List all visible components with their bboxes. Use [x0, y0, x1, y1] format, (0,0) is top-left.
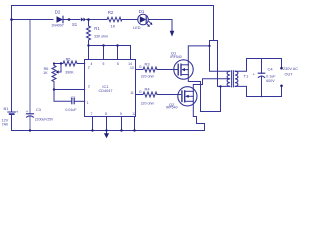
svg-text:R2: R2 [108, 10, 114, 15]
node bus pin4 [87, 44, 89, 46]
wire stub pin5 [103, 46, 105, 60]
capacitor C3 2200uF/25V column [29, 20, 31, 114]
svg-text:1K: 1K [111, 25, 116, 29]
svg-text:330 ohm: 330 ohm [94, 34, 108, 38]
resistor R1 330 ohm vertical [87, 20, 91, 46]
svg-text:7: 7 [91, 112, 93, 116]
svg-text:4: 4 [91, 62, 93, 66]
svg-text:220 ohm: 220 ohm [141, 102, 155, 106]
transformer T1 secondary winding [235, 71, 238, 86]
node Q1 drain junction [208, 45, 210, 47]
wire IC bottom stub pin7 [92, 117, 94, 131]
wire switch to R2 [87, 19, 108, 21]
wire bottom ground rail [12, 130, 205, 132]
node pot top [53, 62, 55, 64]
node battery rail junction [10, 18, 13, 21]
switch S1 chevrons [81, 18, 84, 22]
wire Q2 drain to primary center tap [193, 79, 230, 92]
svg-text:R5: R5 [66, 57, 71, 61]
svg-text:IRF540: IRF540 [166, 105, 178, 109]
wire Q2 source down [193, 101, 204, 123]
svg-text:6: 6 [117, 62, 119, 66]
svg-text:0.01uF: 0.01uF [65, 108, 77, 112]
wire riser to bottom rail [204, 124, 206, 131]
wire split left branch to primary top [210, 41, 230, 72]
node rail pin7 [91, 129, 93, 131]
ground arrow below rail [106, 131, 108, 134]
capacitor C4 plates [258, 72, 264, 74]
wire pin3 [54, 89, 85, 91]
svg-text:1N4007: 1N4007 [51, 24, 64, 28]
svg-text:3: 3 [88, 85, 90, 89]
wire battery column bottom [11, 115, 13, 131]
svg-text:+: + [253, 71, 256, 76]
svg-text:S1: S1 [72, 22, 78, 27]
wire R2 to LED [122, 19, 138, 21]
capacitor C4 0.1uF 600V column [261, 59, 263, 74]
wire split right branch to primary bottom [214, 41, 230, 87]
node rail C3 [29, 129, 31, 131]
svg-text:+: + [26, 109, 29, 114]
svg-text:D1: D1 [139, 9, 145, 14]
wire battery column top [11, 6, 13, 113]
svg-text:5: 5 [103, 62, 105, 66]
resistor R4 220 ohm [143, 92, 157, 97]
svg-text:230V AC: 230V AC [283, 67, 298, 71]
wire pin11 to R4 [136, 94, 144, 96]
svg-text:12: 12 [132, 112, 136, 116]
wire Q1 source down [188, 75, 220, 112]
battery B1 12V 7Ah [8, 111, 16, 113]
node output terminal bottom [280, 85, 283, 88]
node diode-switch [68, 18, 71, 21]
resistor R5 390K [63, 61, 77, 66]
svg-text:9: 9 [120, 112, 122, 116]
wire diode to switch [64, 19, 80, 21]
svg-text:R4: R4 [144, 86, 150, 91]
node rail pin12 [133, 129, 135, 131]
node output terminal top [280, 67, 283, 70]
svg-text:1K: 1K [43, 71, 48, 75]
wire secondary bottom to output [235, 86, 281, 96]
node primary bottom branch [219, 85, 221, 87]
LED D1 [138, 14, 153, 27]
wire R4 to Q2 gate [157, 94, 181, 96]
svg-text:+: + [16, 110, 19, 115]
svg-text:8: 8 [105, 112, 107, 116]
svg-text:11: 11 [130, 91, 134, 95]
wire IC bottom stub pin9 [121, 117, 123, 131]
svg-text:B1: B1 [4, 106, 10, 111]
svg-text:C2: C2 [71, 96, 76, 100]
wire IC bottom stub pin8 [106, 117, 108, 131]
wire IC bottom stub pin12 [134, 117, 136, 131]
node bus pin5 [102, 44, 104, 46]
wire C2 branch left [54, 90, 72, 102]
svg-text:7Ah: 7Ah [2, 122, 9, 126]
wire LED to down arrow [148, 20, 172, 32]
wire right drop from primary bottom [220, 86, 222, 111]
wire pot wiper [58, 64, 61, 73]
svg-text:IRF540: IRF540 [170, 55, 182, 59]
node pot bottom [53, 88, 55, 90]
svg-text:LED: LED [133, 26, 141, 30]
node rail pin9 [120, 129, 122, 131]
node R1 top [87, 18, 90, 21]
node wiper join [60, 62, 62, 64]
svg-text:2: 2 [88, 66, 90, 70]
svg-text:C3: C3 [36, 108, 41, 112]
svg-text:T1: T1 [244, 74, 249, 79]
wire R5 to pot top [54, 64, 63, 66]
wire R3 to Q1 gate [157, 69, 178, 71]
wire stub pin6 [117, 46, 119, 60]
transformer T1 primary winding [227, 71, 230, 86]
transistor Q1 IRF540 [174, 60, 193, 79]
svg-text:OUT: OUT [285, 73, 294, 77]
wire Q1 drain up [188, 46, 209, 65]
wire pin10 to R3 [136, 69, 144, 71]
svg-text:C4: C4 [268, 66, 274, 71]
node arrow ground indicator [170, 31, 175, 37]
node rail pin8 [105, 129, 107, 131]
wire C2 to pin1 [74, 100, 85, 102]
node bus pin6 [116, 44, 118, 46]
svg-text:220 ohm: 220 ohm [141, 75, 155, 79]
svg-text:2200uF/25V: 2200uF/25V [35, 117, 54, 121]
svg-text:1: 1 [87, 101, 89, 105]
svg-text:10: 10 [130, 66, 134, 70]
svg-text:R6: R6 [44, 67, 49, 71]
wire pin2 to R5 [77, 63, 85, 65]
svg-text:R3: R3 [144, 61, 150, 66]
svg-text:D2: D2 [55, 10, 61, 15]
svg-text:0.1uF: 0.1uF [266, 75, 276, 79]
svg-text:R1: R1 [94, 26, 100, 31]
wire top +12V rail [12, 6, 214, 41]
svg-text:CD4047: CD4047 [99, 89, 113, 93]
resistor R6 potentiometer [52, 66, 56, 90]
diode D2 1N4007 [57, 16, 64, 22]
capacitor C3 plates [27, 113, 34, 115]
svg-text:600V: 600V [266, 79, 275, 83]
resistor R2 1K [107, 17, 122, 22]
wire stub pin4 [88, 46, 90, 60]
svg-text:G: G [139, 90, 142, 94]
transformer T1 core [231, 71, 233, 87]
svg-text:390K: 390K [65, 71, 74, 75]
svg-text:G: G [139, 65, 142, 69]
resistor R3 220 ohm [143, 67, 157, 72]
wire second rail segment battery to diode [12, 19, 54, 21]
transistor Q2 IRF540 [178, 87, 197, 106]
op-amp U1 IC1 CD4047 box [85, 60, 136, 117]
capacitor C2 0.01uF [71, 98, 73, 103]
wire secondary top to output [235, 59, 281, 72]
wire bus pins 4 5 6 14 [89, 46, 131, 60]
